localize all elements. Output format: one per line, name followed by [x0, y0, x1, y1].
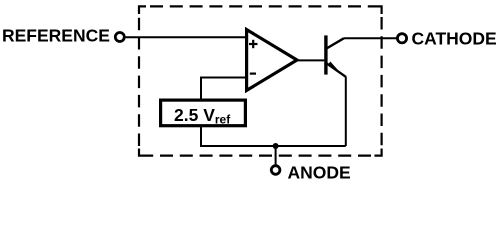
IC package boundary (dashed box) — [139, 6, 382, 155]
wire Vref to op-amp - input — [201, 78, 246, 99]
2.5 Vref reference block — [161, 100, 246, 126]
svg-text:REFERENCE: REFERENCE — [2, 26, 110, 46]
anode rail wire — [201, 146, 346, 147]
transistor Q1 emitter lead with arrow — [327, 62, 346, 77]
wire op-amp output to transistor base — [295, 59, 324, 61]
junction node anode — [273, 143, 279, 149]
terminal REFERENCE — [115, 33, 124, 42]
wire collector to CATHODE — [344, 37, 397, 39]
transistor Q1 collector lead — [327, 38, 345, 48]
op-amp U1 — [247, 30, 297, 91]
op-amp - input marking — [250, 72, 256, 74]
transistor Q1 base bar — [324, 35, 327, 74]
svg-text:CATHODE: CATHODE — [412, 29, 497, 49]
wire emitter to anode rail — [345, 77, 347, 147]
terminal ANODE — [271, 166, 280, 175]
wire anode stub — [275, 146, 277, 166]
wire Vref bottom to anode rail — [200, 126, 202, 146]
wire REFERENCE to op-amp + input — [126, 36, 246, 38]
terminal CATHODE — [397, 34, 406, 43]
op-amp + input marking — [249, 40, 258, 48]
svg-text:ANODE: ANODE — [288, 162, 351, 182]
